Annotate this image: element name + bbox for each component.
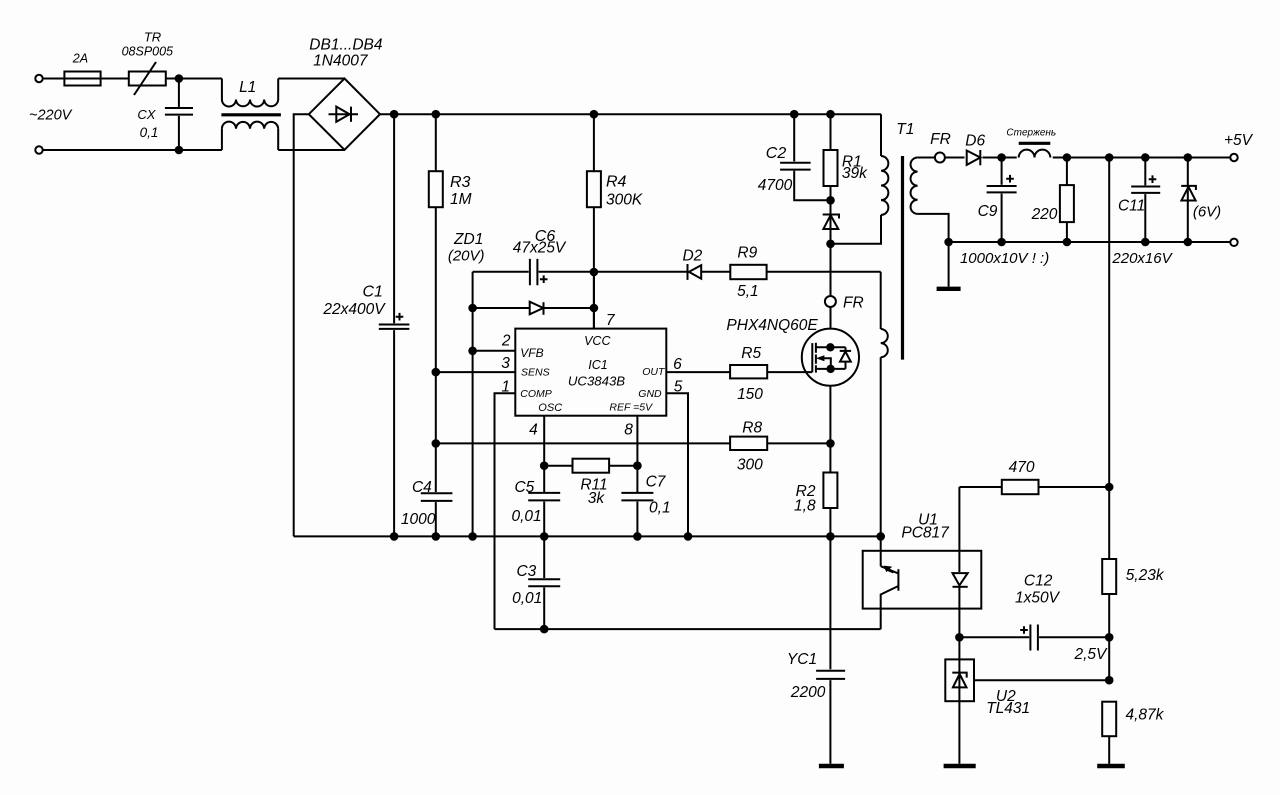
svg-text:3k: 3k: [588, 490, 606, 507]
node rail C9: [997, 238, 1006, 247]
svg-text:TR: TR: [144, 30, 161, 45]
svg-text:5,23k: 5,23k: [1126, 567, 1165, 584]
svg-text:R9: R9: [737, 245, 757, 262]
node C12 right junction: [1105, 633, 1114, 642]
wire secondary ground drop: [948, 242, 950, 287]
node rail zener: [1184, 238, 1193, 247]
node zener top junction: [1184, 153, 1193, 162]
node ZD1 anode junction: [468, 304, 477, 313]
svg-text:7: 7: [606, 312, 616, 329]
capacitor C6 47x25V: [473, 228, 594, 285]
transformer T1 secondary winding: [911, 158, 949, 243]
svg-text:OSC: OSC: [538, 402, 562, 414]
node B junction: [175, 146, 184, 155]
svg-text:L1: L1: [239, 79, 256, 96]
svg-text:2A: 2A: [72, 52, 88, 66]
resistor R9 5,1: [730, 245, 880, 301]
svg-text:+5V: +5V: [1224, 132, 1254, 149]
resistor 470: [959, 459, 1109, 494]
svg-text:C5: C5: [514, 479, 534, 496]
svg-text:~220V: ~220V: [29, 108, 73, 124]
wire pin7 VCC vertical: [593, 272, 595, 329]
svg-text:2200: 2200: [790, 684, 826, 701]
svg-text:47x25V: 47x25V: [513, 240, 567, 257]
node input terminal top (~220V line): [35, 75, 42, 82]
svg-text:(20V): (20V): [448, 248, 485, 265]
diode D2: [594, 248, 730, 280]
svg-text:0,01: 0,01: [512, 508, 542, 525]
ground secondary: [937, 287, 961, 291]
svg-text:VFB: VFB: [520, 346, 543, 360]
node R4 top rail dot: [590, 110, 599, 119]
node SENS junction: [432, 368, 441, 377]
svg-text:DB1...DB4: DB1...DB4: [309, 37, 383, 54]
resistor R5 150: [730, 345, 812, 403]
svg-text:2: 2: [501, 333, 511, 350]
op-amp/controller IC1 UC3843B box: [515, 329, 666, 416]
varistor TR 08SP005: [122, 30, 173, 95]
resistor R11 3k: [544, 459, 637, 507]
node VFB junction: [468, 347, 477, 356]
transformer T1 primary winding: [881, 114, 914, 215]
svg-text:1,8: 1,8: [794, 498, 816, 515]
wire COMP bottom rail: [495, 628, 881, 630]
node opto LED cathode junction: [955, 633, 964, 642]
wire fuse to varistor: [101, 78, 129, 80]
node rail C1: [390, 532, 399, 541]
svg-text:R8: R8: [742, 420, 762, 437]
node rail C5: [540, 532, 549, 541]
ferrite bead FR on secondary: [930, 131, 951, 163]
resistor 5,23k: [1102, 559, 1165, 680]
wire varistor to node A: [166, 78, 222, 80]
node C1 top rail dot: [432, 110, 441, 119]
zener ZD1: [473, 302, 594, 315]
wire pin8 REF vertical: [636, 416, 638, 492]
node rail aux winding: [876, 532, 885, 541]
resistor 4,87k: [1102, 702, 1164, 764]
wire feedback vertical from +5V: [1108, 158, 1110, 560]
ground feedback divider: [1097, 764, 1125, 768]
svg-text:FR: FR: [843, 295, 864, 312]
resistor R8 300: [730, 420, 830, 474]
resistor R2 1,8: [794, 473, 837, 537]
wire bridge minus to left drop: [294, 114, 309, 536]
node rail C4: [432, 532, 441, 541]
capacitor C7 0,1: [621, 474, 670, 537]
svg-text:C7: C7: [646, 474, 667, 491]
svg-text:470: 470: [1009, 459, 1035, 476]
wire main ground rail: [294, 535, 881, 537]
svg-text:UC3843B: UC3843B: [568, 374, 625, 389]
wire pin1 COMP: [495, 393, 516, 629]
svg-text:COMP: COMP: [520, 388, 552, 400]
svg-text:300: 300: [737, 457, 763, 474]
svg-text:22x400V: 22x400V: [322, 301, 386, 318]
svg-text:PHX4NQ60E: PHX4NQ60E: [726, 317, 818, 334]
svg-text:ZD1: ZD1: [453, 231, 483, 248]
wire bridge bottom stub: [344, 149, 346, 151]
node ZD1 cathode junction: [590, 304, 599, 313]
fuse FU 2A: [64, 52, 100, 86]
wire L1 to bridge bottom: [278, 149, 344, 151]
zener clamp diode (snubber): [823, 200, 839, 244]
wire secondary top: [918, 157, 1234, 159]
node feedback tap junction: [1105, 153, 1114, 162]
svg-text:1M: 1M: [450, 191, 472, 208]
svg-text:1x50V: 1x50V: [1015, 590, 1061, 607]
svg-text:0,1: 0,1: [140, 125, 159, 140]
node output terminal minus: [1230, 239, 1237, 246]
inductor output choke with core (Стержень): [1006, 128, 1056, 167]
svg-text:0,1: 0,1: [649, 500, 671, 517]
svg-text:6: 6: [673, 356, 682, 373]
node R11 left junction: [540, 461, 549, 470]
wire pin5 GND: [666, 393, 688, 536]
resistor R4 300K: [587, 114, 643, 328]
node choke right junction: [1063, 153, 1072, 162]
svg-text:T1: T1: [896, 121, 914, 138]
svg-text:4700: 4700: [758, 177, 793, 194]
node 470 junction: [1105, 483, 1114, 492]
svg-text:VCC: VCC: [584, 334, 611, 348]
ground TL431: [944, 764, 976, 768]
svg-text:FR: FR: [930, 131, 951, 148]
node output terminal +5V: [1230, 154, 1237, 161]
svg-text:YC1: YC1: [787, 651, 817, 668]
svg-text:220x16V: 220x16V: [1111, 250, 1173, 267]
svg-text:C11: C11: [1118, 198, 1145, 215]
wire bottom output rail: [949, 241, 1231, 243]
node R8 left junction: [432, 439, 441, 448]
wire L1 to bridge top: [278, 78, 344, 80]
svg-text:150: 150: [737, 386, 763, 403]
node secondary ground junction: [944, 238, 953, 247]
svg-text:GND: GND: [638, 388, 662, 400]
wire top +310V rail: [380, 113, 881, 115]
node C9 top junction: [997, 153, 1006, 162]
node rail C11: [1141, 238, 1150, 247]
ferrite bead FR on drain: [825, 295, 864, 312]
svg-text:OUT: OUT: [642, 366, 666, 378]
wire pin4 OSC vertical: [543, 416, 545, 492]
svg-text:C12: C12: [1024, 573, 1053, 590]
svg-text:R4: R4: [606, 174, 627, 191]
node R11 right junction: [633, 461, 642, 470]
ground YC1: [819, 764, 844, 768]
wire source vertical: [829, 386, 831, 473]
transistor Q1 MOSFET PHX4NQ60E: [802, 329, 859, 386]
diode opto LED: [953, 487, 968, 637]
node rail C7: [633, 532, 642, 541]
resistor R1 39k: [824, 114, 869, 200]
svg-text:Стержень: Стержень: [1006, 128, 1056, 139]
svg-text:8: 8: [624, 422, 633, 439]
svg-text:1N4007: 1N4007: [313, 53, 369, 70]
node C3 bottom junction: [540, 625, 549, 634]
wire primary bottom: [831, 215, 882, 244]
inductor L1 common-mode choke: [221, 79, 281, 151]
svg-text:C2: C2: [766, 145, 787, 162]
node rail 220: [1063, 238, 1072, 247]
capacitor C1 22x400V: [322, 114, 409, 536]
svg-text:0,01: 0,01: [512, 590, 542, 607]
capacitor C5 0,01: [512, 479, 561, 536]
node C11 top junction: [1141, 153, 1150, 162]
svg-text:4,87k: 4,87k: [1126, 707, 1165, 724]
svg-text:C4: C4: [412, 479, 432, 496]
node rail GND pin: [684, 532, 693, 541]
bridge rectifier DB1...DB4 1N4007: [309, 37, 383, 150]
svg-text:C3: C3: [516, 563, 536, 580]
svg-text:R3: R3: [450, 174, 471, 191]
node rail ZD1 line: [468, 532, 477, 541]
wire pin6 OUT: [666, 371, 730, 373]
wire pin3 SENS: [436, 371, 516, 373]
svg-text:IC1: IC1: [588, 358, 607, 372]
svg-text:TL431: TL431: [986, 700, 1030, 717]
node source R8 junction: [826, 439, 835, 448]
capacitor C2 4700: [758, 114, 831, 200]
wire input top to fuse: [43, 78, 65, 80]
optocoupler U1 PC817 box: [863, 512, 982, 609]
capacitor C9: [978, 158, 1017, 243]
capacitor C11: [1118, 158, 1160, 243]
svg-text:3: 3: [501, 355, 510, 372]
svg-text:39k: 39k: [842, 165, 868, 182]
node drain-primary junction: [826, 240, 835, 249]
shunt regulator U2 TL431: [945, 637, 1109, 764]
transformer T1 aux winding: [881, 272, 888, 537]
wire VFB left vertical: [472, 272, 474, 537]
node R1 top rail dot: [826, 110, 835, 119]
node C2 top rail dot: [790, 110, 799, 119]
node VCC junction: [590, 268, 599, 277]
svg-text:220: 220: [1031, 206, 1058, 223]
svg-text:REF =5V: REF =5V: [609, 402, 653, 414]
node bridge plus junction: [390, 110, 399, 119]
diode D6: [965, 133, 986, 167]
svg-text:R5: R5: [741, 345, 761, 362]
svg-text:1000: 1000: [401, 511, 436, 528]
capacitor C4 1000: [401, 479, 453, 536]
transistor opto phototransistor: [881, 536, 899, 629]
svg-text:C1: C1: [362, 284, 382, 301]
node snubber junction: [826, 196, 835, 205]
wire input bottom rail: [43, 149, 222, 151]
node A junction: [175, 74, 184, 83]
node TL431 ref junction: [1105, 676, 1114, 685]
svg-text:4: 4: [529, 422, 538, 439]
wire R8 row: [436, 442, 730, 444]
svg-text:08SP005: 08SP005: [122, 45, 173, 59]
capacitor C3 0,01: [512, 536, 560, 629]
capacitor CX 0,1: [137, 79, 193, 151]
svg-text:5,1: 5,1: [737, 283, 759, 300]
transformer T1 core bar: [901, 156, 904, 360]
svg-text:PC817: PC817: [901, 525, 950, 542]
capacitor YC1 2200: [787, 536, 845, 763]
resistor R3 1M: [429, 114, 472, 492]
svg-text:D2: D2: [682, 248, 702, 265]
svg-text:2,5V: 2,5V: [1073, 646, 1108, 663]
svg-text:CX: CX: [137, 107, 156, 122]
svg-text:1000x10V ! :): 1000x10V ! :): [960, 250, 1049, 267]
resistor 220: [1031, 158, 1074, 243]
node input terminal bottom: [35, 146, 42, 153]
capacitor C12 1x50V: [959, 573, 1109, 651]
wire pin2 VFB: [473, 350, 516, 352]
node rail R2 bottom: [826, 532, 835, 541]
zener diode (6V): [1181, 158, 1221, 243]
svg-text:C9: C9: [978, 203, 998, 220]
svg-text:SENS: SENS: [521, 367, 550, 379]
svg-text:D6: D6: [965, 133, 985, 150]
wire drain vertical: [830, 244, 832, 329]
svg-text:(6V): (6V): [1193, 204, 1221, 221]
svg-text:300K: 300K: [606, 192, 643, 209]
